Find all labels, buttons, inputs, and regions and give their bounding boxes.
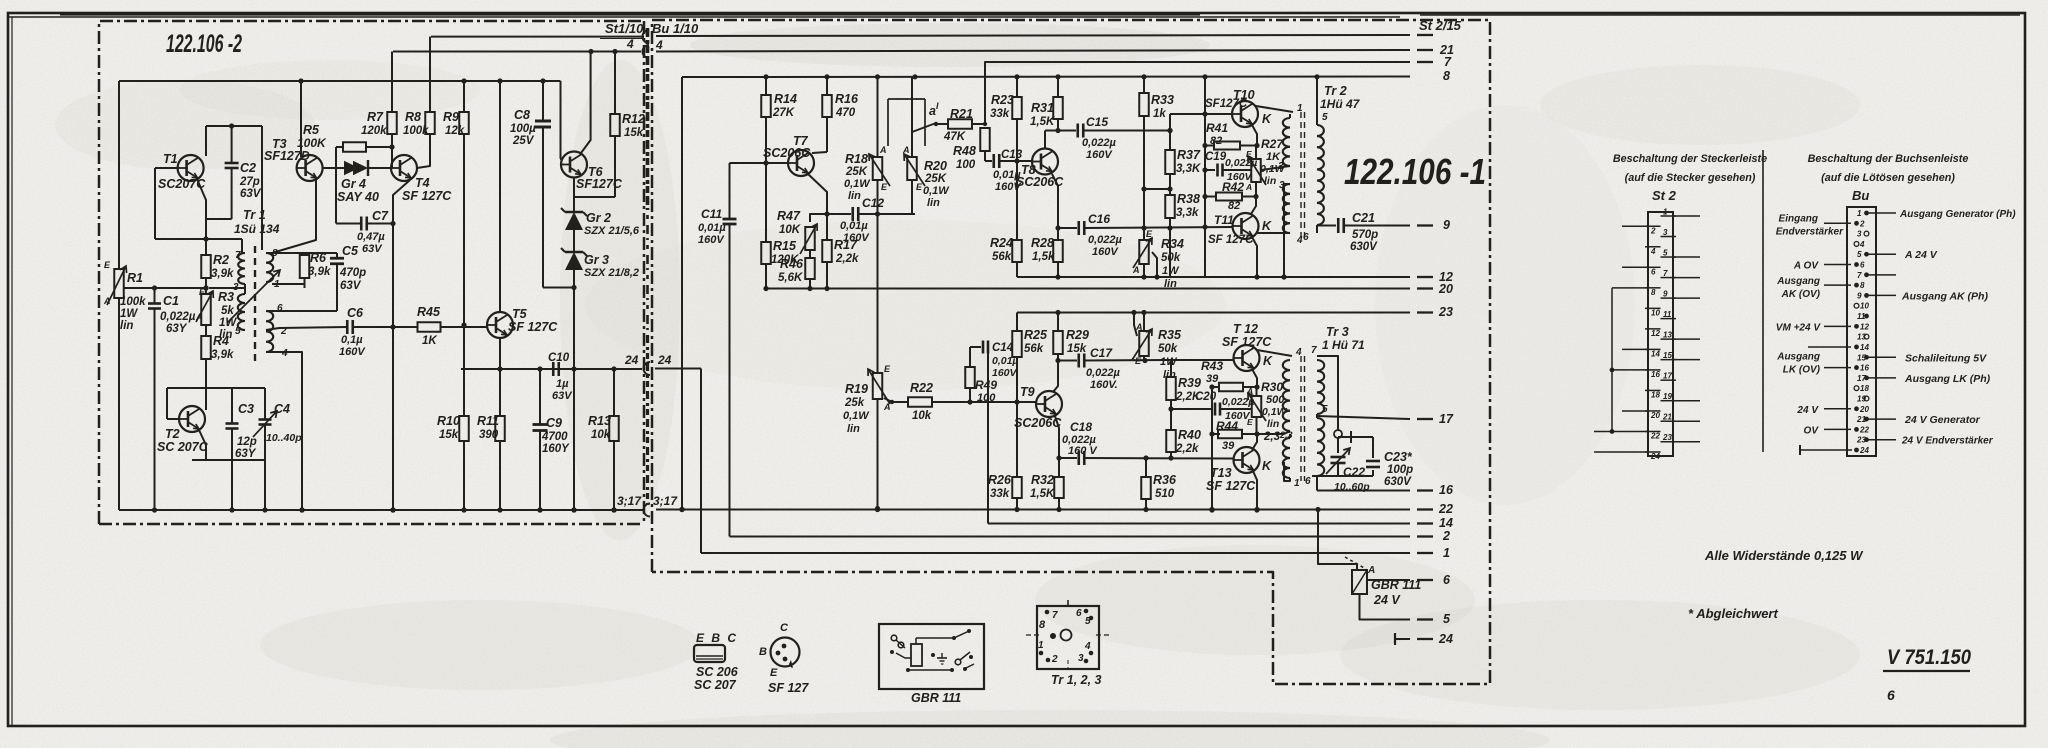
svg-text:10: 10 bbox=[1651, 308, 1660, 317]
svg-text:5: 5 bbox=[1443, 612, 1451, 626]
svg-text:T11: T11 bbox=[1214, 213, 1234, 227]
wire pin4 bbox=[266, 352, 302, 510]
svg-text:R20: R20 bbox=[924, 159, 947, 173]
resistor R37 bbox=[1165, 150, 1175, 174]
svg-text:3,9k: 3,9k bbox=[211, 268, 234, 280]
capacitor C7 line bbox=[335, 168, 337, 224]
svg-text:A: A bbox=[103, 296, 111, 306]
rail 16 bbox=[1317, 490, 1410, 492]
wire rail St1/10 bbox=[431, 36, 644, 38]
wire T1 loop top bbox=[206, 125, 262, 127]
wire T6 base feed bbox=[561, 81, 563, 161]
svg-text:R40: R40 bbox=[1178, 428, 1201, 442]
wire Tr2 pin3 bbox=[1284, 184, 1290, 277]
Bu right stubs bbox=[1866, 212, 1896, 214]
wire pin2 line C6 R45 bbox=[266, 328, 279, 330]
transistor T4 bbox=[391, 155, 417, 181]
svg-text:3,3K: 3,3K bbox=[1176, 163, 1201, 175]
wire R12 column bbox=[614, 52, 616, 115]
paper shading bbox=[690, 23, 1210, 67]
svg-text:St 2/15: St 2/15 bbox=[1419, 18, 1462, 33]
svg-text:R43: R43 bbox=[1201, 359, 1223, 373]
svg-text:Beschaltung der Steckerleiste: Beschaltung der Steckerleiste bbox=[1613, 153, 1767, 165]
svg-text:A 24 V: A 24 V bbox=[1904, 249, 1938, 261]
capacitor C17 line bbox=[1058, 360, 1077, 362]
svg-text:7: 7 bbox=[1444, 55, 1452, 69]
resistor R24 bbox=[1016, 161, 1018, 240]
svg-text:E: E bbox=[1135, 356, 1142, 366]
resistor R25 bbox=[1016, 313, 1018, 332]
resistor R41 line bbox=[1205, 145, 1214, 147]
svg-text:100p: 100p bbox=[1387, 464, 1413, 476]
svg-text:R27: R27 bbox=[1261, 137, 1284, 151]
svg-text:1k: 1k bbox=[1153, 108, 1166, 120]
svg-text:St1/10: St1/10 bbox=[605, 21, 644, 36]
wire T11 emitter bbox=[1252, 237, 1257, 277]
wire left column x682 bbox=[681, 77, 683, 510]
connector Bu bbox=[1847, 207, 1876, 456]
resistor R6 bbox=[304, 253, 306, 255]
svg-text:13: 13 bbox=[1857, 333, 1866, 342]
wire T5 collector bbox=[499, 81, 501, 312]
rail 12 bbox=[1017, 276, 1410, 278]
svg-text:Ausgang LK (Ph): Ausgang LK (Ph) bbox=[1904, 373, 1991, 385]
wire rail 21 bbox=[656, 50, 1410, 52]
stub 24 bbox=[1394, 633, 1396, 645]
svg-text:18: 18 bbox=[1860, 384, 1869, 393]
svg-text:lin: lin bbox=[927, 197, 940, 209]
wire pin6 line bbox=[1312, 475, 1373, 477]
svg-text:3: 3 bbox=[1663, 228, 1668, 237]
capacitor C3 bbox=[231, 388, 233, 423]
svg-text:1µ: 1µ bbox=[556, 378, 569, 390]
svg-text:A: A bbox=[879, 145, 887, 155]
svg-text:56k: 56k bbox=[992, 251, 1012, 263]
svg-text:25V: 25V bbox=[512, 135, 535, 147]
svg-text:A: A bbox=[1132, 265, 1140, 275]
wire T2 base bbox=[166, 388, 168, 419]
resistor R21 bbox=[936, 123, 948, 125]
svg-text:100k: 100k bbox=[403, 125, 429, 137]
svg-text:E: E bbox=[104, 260, 111, 270]
svg-text:63V: 63V bbox=[552, 390, 573, 402]
svg-text:Alle Widerstände 0,125 W: Alle Widerstände 0,125 W bbox=[1704, 548, 1864, 563]
svg-text:10k: 10k bbox=[912, 410, 932, 422]
svg-text:24: 24 bbox=[1650, 452, 1660, 461]
resistor R8 bbox=[425, 112, 435, 134]
svg-text:22: 22 bbox=[1859, 425, 1869, 434]
svg-text:160V: 160V bbox=[1086, 149, 1113, 161]
potentiometer R35 bbox=[1143, 313, 1145, 332]
svg-text:4: 4 bbox=[1859, 240, 1865, 249]
svg-text:E: E bbox=[1146, 229, 1153, 239]
svg-text:E: E bbox=[881, 182, 888, 192]
potentiometer R1 bbox=[114, 269, 124, 298]
svg-text:R41: R41 bbox=[1206, 121, 1228, 135]
wire T11 collector bbox=[1251, 197, 1256, 215]
svg-text:SC206C: SC206C bbox=[763, 146, 811, 160]
svg-text:8: 8 bbox=[1860, 281, 1865, 290]
svg-text:T9: T9 bbox=[1020, 385, 1035, 399]
resistor R9 bbox=[459, 112, 469, 134]
resistor R40 bbox=[1166, 430, 1176, 452]
svg-text:39: 39 bbox=[1222, 440, 1235, 452]
svg-text:0,022µ: 0,022µ bbox=[1086, 367, 1121, 379]
St2 left stubs bbox=[1622, 225, 1648, 227]
svg-text:9: 9 bbox=[1663, 290, 1668, 299]
wire T3 emitter bbox=[272, 180, 316, 253]
svg-text:470p: 470p bbox=[339, 267, 366, 279]
svg-text:Ausgang: Ausgang bbox=[1776, 276, 1820, 287]
svg-text:R32: R32 bbox=[1031, 473, 1054, 487]
wire base rail y239 bbox=[155, 238, 242, 240]
svg-text:VM +24 V: VM +24 V bbox=[1776, 322, 1822, 333]
svg-text:Ausgang AK (Ph): Ausgang AK (Ph) bbox=[1901, 290, 1988, 302]
wire T12 collector bbox=[1257, 350, 1292, 356]
wire Tr2 pin4 bbox=[1257, 232, 1290, 234]
svg-text:R8: R8 bbox=[405, 110, 421, 124]
svg-text:C4: C4 bbox=[274, 402, 290, 416]
svg-text:630V: 630V bbox=[1384, 476, 1412, 488]
wire Tr3 pin4 bbox=[1284, 431, 1290, 434]
svg-text:SC 207: SC 207 bbox=[694, 678, 737, 692]
svg-text:50k: 50k bbox=[1158, 343, 1178, 355]
svg-text:122.106 -1: 122.106 -1 bbox=[1344, 151, 1486, 192]
svg-text:SAY 40: SAY 40 bbox=[337, 190, 379, 204]
svg-text:R16: R16 bbox=[835, 92, 859, 106]
svg-text:82: 82 bbox=[1210, 135, 1222, 147]
St2 right stubs bbox=[1673, 215, 1700, 217]
svg-text:63V: 63V bbox=[240, 188, 262, 200]
svg-text:C1: C1 bbox=[163, 294, 179, 308]
svg-text:SZX 21/5,6: SZX 21/5,6 bbox=[584, 225, 640, 237]
svg-text:23: 23 bbox=[1856, 436, 1866, 445]
capacitor C13 bbox=[985, 160, 992, 162]
potentiometer R34 bbox=[1139, 240, 1149, 264]
transistor T10 bbox=[1232, 101, 1258, 127]
resistor R23 bbox=[1016, 77, 1018, 97]
svg-text:6: 6 bbox=[1305, 476, 1311, 487]
svg-text:10: 10 bbox=[1860, 302, 1869, 311]
svg-text:R21: R21 bbox=[950, 107, 973, 121]
svg-text:K: K bbox=[1262, 459, 1272, 473]
svg-text:St 2: St 2 bbox=[1652, 188, 1677, 203]
legend Tr pinout bbox=[1037, 606, 1099, 669]
svg-text:R26: R26 bbox=[988, 473, 1012, 487]
svg-text:6: 6 bbox=[1303, 232, 1309, 243]
transistor T12 bbox=[1234, 345, 1260, 371]
svg-text:lin: lin bbox=[1163, 369, 1176, 381]
svg-text:5k: 5k bbox=[221, 305, 234, 317]
svg-text:3;17: 3;17 bbox=[617, 494, 642, 508]
svg-text:5: 5 bbox=[1322, 404, 1328, 415]
svg-text:C7: C7 bbox=[372, 209, 389, 223]
capacitor C23 bbox=[1338, 436, 1373, 438]
resistor R42 line bbox=[1205, 196, 1216, 198]
capacitor C20 line bbox=[1171, 408, 1213, 410]
capacitor C16 line bbox=[1058, 227, 1077, 229]
svg-text:10..40p: 10..40p bbox=[266, 432, 302, 444]
svg-text:Tr 1, 2, 3: Tr 1, 2, 3 bbox=[1051, 673, 1102, 687]
svg-text:lin: lin bbox=[848, 190, 861, 202]
svg-text:25K: 25K bbox=[845, 166, 868, 178]
svg-text:570p: 570p bbox=[1352, 229, 1378, 241]
capacitor C2 bbox=[231, 126, 233, 163]
svg-text:24 V: 24 V bbox=[1796, 405, 1819, 416]
svg-text:24: 24 bbox=[657, 353, 672, 367]
svg-text:A: A bbox=[195, 312, 203, 322]
svg-text:Bu: Bu bbox=[1852, 188, 1869, 203]
svg-text:SF127C: SF127C bbox=[1205, 98, 1248, 110]
svg-text:160V.: 160V. bbox=[1090, 379, 1118, 391]
svg-text:A: A bbox=[902, 145, 910, 155]
svg-text:R37: R37 bbox=[1177, 148, 1201, 162]
wire T10 emitter bbox=[1252, 125, 1257, 146]
svg-text:3: 3 bbox=[1857, 230, 1862, 239]
svg-text:8: 8 bbox=[1443, 69, 1450, 83]
svg-text:9: 9 bbox=[1443, 218, 1450, 232]
svg-text:E: E bbox=[770, 667, 778, 679]
svg-text:9: 9 bbox=[1857, 291, 1862, 300]
svg-text:1,5K: 1,5K bbox=[1030, 488, 1055, 500]
capacitor C14 bbox=[970, 346, 981, 348]
svg-text:a: a bbox=[929, 104, 936, 118]
svg-text:22: 22 bbox=[1650, 431, 1660, 440]
svg-text:C13: C13 bbox=[1001, 149, 1023, 161]
svg-text:R39: R39 bbox=[1178, 376, 1201, 390]
svg-text:C5: C5 bbox=[342, 244, 359, 258]
svg-text:510: 510 bbox=[1155, 488, 1175, 500]
wire T10 collector bbox=[1256, 106, 1293, 112]
resistor R28 bbox=[1057, 228, 1059, 240]
svg-text:A: A bbox=[1245, 182, 1252, 192]
svg-text:2: 2 bbox=[1442, 529, 1450, 543]
potentiometer R27 bbox=[1255, 146, 1257, 160]
svg-text:R31: R31 bbox=[1031, 101, 1054, 115]
svg-text:R14: R14 bbox=[774, 92, 797, 106]
svg-text:4: 4 bbox=[1084, 641, 1091, 652]
wire T3 collector column bbox=[300, 81, 302, 157]
svg-text:7: 7 bbox=[235, 250, 241, 261]
svg-text:2,2k: 2,2k bbox=[1175, 443, 1199, 455]
svg-text:4: 4 bbox=[1296, 235, 1303, 246]
potentiometer R20 bbox=[911, 77, 913, 157]
svg-text:Tr 2: Tr 2 bbox=[1324, 84, 1347, 98]
svg-text:E B C: E B C bbox=[696, 631, 738, 645]
svg-text:R3: R3 bbox=[218, 290, 234, 304]
svg-text:1Sü 134: 1Sü 134 bbox=[234, 222, 280, 236]
wire T7 emitter bbox=[808, 174, 827, 214]
svg-text:lin: lin bbox=[120, 320, 133, 332]
svg-text:R22: R22 bbox=[910, 381, 933, 395]
wire R1 down bbox=[118, 298, 120, 510]
svg-text:25k: 25k bbox=[844, 397, 865, 409]
svg-text:100k: 100k bbox=[120, 296, 146, 308]
svg-text:14: 14 bbox=[1651, 349, 1660, 358]
rail 22 bus bbox=[656, 509, 1410, 511]
svg-text:lin: lin bbox=[1267, 418, 1279, 430]
potentiometer R30 bbox=[1256, 387, 1258, 396]
svg-text:160V: 160V bbox=[698, 234, 725, 246]
wire T1 emitter bbox=[197, 179, 206, 239]
resistor R4 bbox=[205, 325, 207, 336]
svg-text:1W: 1W bbox=[1162, 265, 1180, 277]
wire Tr3 pin1 bbox=[1284, 462, 1290, 481]
svg-text:C15: C15 bbox=[1086, 115, 1108, 129]
svg-text:R13: R13 bbox=[588, 414, 611, 428]
svg-text:V 751.150: V 751.150 bbox=[1887, 646, 1971, 669]
transistor T11 bbox=[1233, 213, 1259, 239]
svg-text:R11: R11 bbox=[477, 414, 499, 428]
resistor R33 bbox=[1143, 77, 1145, 93]
svg-text:A: A bbox=[1246, 386, 1253, 396]
wire T10 base line bbox=[1170, 113, 1232, 115]
svg-text:T2: T2 bbox=[165, 427, 180, 441]
svg-text:SZX 21/8,2: SZX 21/8,2 bbox=[584, 267, 639, 279]
svg-text:24: 24 bbox=[1438, 632, 1453, 646]
resistor R49 bbox=[969, 347, 971, 367]
svg-text:SF 127C: SF 127C bbox=[508, 320, 558, 334]
resistor R16 bbox=[826, 77, 828, 95]
svg-text:R49: R49 bbox=[975, 378, 997, 392]
block 122.106-1 border bbox=[652, 20, 1490, 684]
wire T1 loop right bbox=[261, 126, 263, 250]
rail 20 bbox=[766, 288, 1410, 290]
relay GBR111 bbox=[1352, 570, 1367, 594]
wire T1 base column bbox=[154, 168, 156, 239]
svg-text:E: E bbox=[884, 364, 891, 374]
svg-text:15: 15 bbox=[1663, 351, 1672, 360]
svg-text:4: 4 bbox=[1650, 247, 1656, 256]
svg-text:A: A bbox=[1367, 565, 1375, 576]
wire rail pin4 left bbox=[393, 51, 641, 53]
wire T1 collector bbox=[205, 126, 207, 156]
wire Tr2 pin2 to R27 bbox=[1261, 166, 1290, 170]
Bu left stubs bbox=[1824, 222, 1851, 224]
svg-text:SF 127: SF 127 bbox=[768, 681, 809, 695]
svg-text:LK (OV): LK (OV) bbox=[1783, 365, 1821, 376]
wire T7 base line bbox=[730, 162, 789, 164]
svg-text:63Y: 63Y bbox=[235, 448, 257, 460]
svg-text:Endverstärker: Endverstärker bbox=[1776, 226, 1844, 237]
wire pin5 rail 17 bbox=[1316, 414, 1318, 418]
wire rail y81 bbox=[119, 80, 561, 82]
svg-text:12p: 12p bbox=[237, 436, 257, 448]
svg-text:120k: 120k bbox=[361, 125, 387, 137]
connector St2 bbox=[1648, 212, 1673, 456]
resistor R48 bbox=[983, 122, 987, 126]
svg-text:15k: 15k bbox=[1067, 343, 1087, 355]
svg-text:33k: 33k bbox=[990, 488, 1010, 500]
svg-text:25K: 25K bbox=[924, 173, 947, 185]
svg-text:T1: T1 bbox=[163, 152, 178, 166]
svg-text:AK (OV): AK (OV) bbox=[1781, 289, 1821, 300]
svg-text:1: 1 bbox=[1297, 103, 1303, 114]
svg-text:lin: lin bbox=[1264, 175, 1276, 187]
svg-text:R23: R23 bbox=[991, 93, 1014, 107]
Tr1 tuning arrow bbox=[227, 270, 280, 323]
wire left junction column T10 cell bbox=[1204, 77, 1206, 277]
svg-text:C10: C10 bbox=[548, 352, 570, 364]
svg-text:1,5k: 1,5k bbox=[1032, 251, 1055, 263]
wire Tr3 pin7 down bbox=[1317, 356, 1338, 431]
svg-text:1: 1 bbox=[1038, 640, 1044, 651]
wire R8 column bbox=[429, 37, 431, 112]
resistor R36 bbox=[1145, 458, 1147, 477]
svg-text:5,6K: 5,6K bbox=[778, 272, 803, 284]
svg-text:T 12: T 12 bbox=[1233, 322, 1258, 336]
transistor T2 bbox=[179, 406, 205, 432]
svg-text:R5: R5 bbox=[303, 123, 320, 137]
wire Tr2 pin1 bbox=[1289, 114, 1291, 118]
wire T8 collector bbox=[1044, 131, 1046, 149]
rail 2 bbox=[730, 536, 1411, 538]
transistor T6 bbox=[561, 152, 587, 178]
wire T9 emitter bbox=[1055, 416, 1059, 458]
svg-text:R28: R28 bbox=[1031, 236, 1054, 250]
wire T8 emitter bbox=[1052, 174, 1058, 228]
svg-text:E: E bbox=[916, 182, 923, 192]
svg-text:27K: 27K bbox=[772, 107, 795, 119]
resistor R32 bbox=[1058, 458, 1060, 477]
svg-text:0,022µ: 0,022µ bbox=[1225, 157, 1257, 169]
svg-text:A: A bbox=[883, 402, 891, 412]
svg-text:16: 16 bbox=[1860, 364, 1869, 373]
zener Gr2 bbox=[573, 197, 575, 212]
svg-text:SC 207C: SC 207C bbox=[157, 440, 209, 454]
svg-text:6: 6 bbox=[1076, 608, 1082, 619]
svg-text:C6: C6 bbox=[347, 306, 364, 320]
svg-text:2,2k: 2,2k bbox=[835, 253, 859, 265]
wire pin7 bbox=[241, 239, 243, 253]
rail 1 bbox=[701, 552, 1410, 554]
svg-text:3;17: 3;17 bbox=[653, 494, 678, 508]
svg-text:5: 5 bbox=[1085, 616, 1091, 627]
svg-text:C12: C12 bbox=[862, 196, 884, 210]
svg-text:33k: 33k bbox=[990, 108, 1010, 120]
svg-text:R36: R36 bbox=[1153, 473, 1177, 487]
svg-text:4: 4 bbox=[655, 38, 663, 52]
svg-text:21: 21 bbox=[1662, 413, 1672, 422]
wire T6 emitter bbox=[573, 178, 575, 198]
svg-text:C3: C3 bbox=[238, 402, 254, 416]
wire 24 feed bbox=[700, 369, 702, 554]
svg-text:A: A bbox=[1135, 322, 1143, 332]
svg-text:19: 19 bbox=[1857, 394, 1866, 403]
svg-text:39: 39 bbox=[1206, 373, 1219, 385]
svg-text:C11: C11 bbox=[701, 207, 722, 221]
svg-text:160V: 160V bbox=[1092, 246, 1119, 258]
svg-text:Gr 3: Gr 3 bbox=[584, 253, 609, 267]
wire left junction column T12 cell bbox=[1211, 387, 1213, 510]
svg-text:100K: 100K bbox=[297, 136, 327, 150]
svg-text:8: 8 bbox=[1039, 619, 1046, 631]
svg-text:8: 8 bbox=[1651, 288, 1656, 297]
svg-text:4: 4 bbox=[626, 37, 634, 51]
svg-text:23: 23 bbox=[1438, 305, 1453, 319]
wire Tr3 tap 2,3 bbox=[1257, 433, 1284, 435]
svg-text:10K: 10K bbox=[779, 224, 801, 236]
svg-text:SC 206: SC 206 bbox=[696, 665, 739, 679]
svg-text:C8: C8 bbox=[514, 108, 530, 122]
svg-text:Beschaltung der Buchsenleiste: Beschaltung der Buchsenleiste bbox=[1808, 153, 1969, 165]
capacitor C19 line bbox=[1205, 169, 1215, 171]
svg-text:Tr 1: Tr 1 bbox=[243, 208, 266, 222]
svg-text:R45: R45 bbox=[417, 305, 441, 319]
svg-text:C: C bbox=[780, 622, 789, 634]
svg-text:R47: R47 bbox=[777, 209, 801, 223]
svg-text:R18: R18 bbox=[845, 152, 868, 166]
